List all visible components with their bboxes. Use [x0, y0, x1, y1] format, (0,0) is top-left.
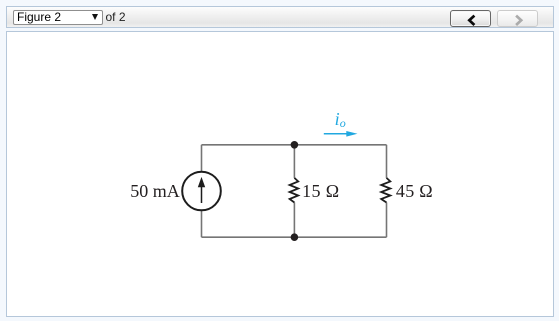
- svg-text:50 mA: 50 mA: [130, 181, 180, 201]
- wire middle lower: [293, 203, 295, 238]
- node dot top: [291, 141, 299, 149]
- wire left lower (source to bottom wire): [201, 210, 203, 237]
- resistor R1 15 ohm zigzag: [290, 178, 299, 203]
- current source arrow shaft: [201, 187, 203, 203]
- node dot bottom: [291, 233, 299, 241]
- toolbar: [6, 6, 554, 28]
- wire top (node A to node B): [202, 144, 387, 146]
- wire middle upper: [293, 145, 295, 178]
- next button (disabled): [497, 10, 538, 27]
- wire left upper (top wire to source): [201, 145, 203, 172]
- figure select dropdown: [13, 10, 103, 25]
- current arrow i_o shaft: [324, 133, 348, 135]
- prev button: [450, 10, 491, 27]
- svg-text:15 Ω: 15 Ω: [302, 181, 339, 201]
- resistor R2 45 ohm zigzag: [381, 178, 390, 203]
- wire right upper: [386, 145, 388, 178]
- label "of 2": [106, 10, 126, 24]
- svg-text:o: o: [340, 116, 346, 130]
- svg-text:45 Ω: 45 Ω: [396, 181, 433, 201]
- wire bottom: [202, 236, 387, 238]
- wire right lower: [386, 203, 388, 238]
- current source I1 circle: [182, 172, 221, 211]
- current source arrow head: [198, 177, 205, 187]
- current arrow i_o head: [346, 131, 357, 137]
